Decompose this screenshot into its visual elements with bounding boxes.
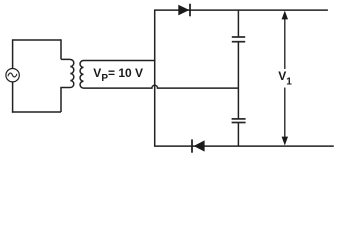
diode D2 bottom rail xyxy=(192,139,205,152)
capacitor C1 plates xyxy=(232,37,245,42)
diode D1 top rail xyxy=(178,4,190,17)
wire left bus vertical xyxy=(154,10,156,146)
wire secondary top xyxy=(84,60,156,62)
wire primary loop bottom xyxy=(12,111,61,113)
transformer secondary coil xyxy=(80,61,83,89)
svg-text:VP= 10 V: VP= 10 V xyxy=(93,66,143,84)
V1 measurement arrow upper xyxy=(282,11,288,69)
AC source V_S xyxy=(6,69,19,82)
V1 measurement arrow lower xyxy=(282,88,288,146)
wire secondary bottom with hop over bus xyxy=(84,85,239,88)
wire capacitor branch middle xyxy=(237,42,239,119)
wire primary loop left upper xyxy=(12,39,14,68)
wire bottom rail xyxy=(154,145,334,147)
wire primary loop left lower xyxy=(12,82,14,113)
transformer primary coil xyxy=(61,59,74,112)
capacitor C2 plates xyxy=(232,119,246,123)
svg-text:V1: V1 xyxy=(278,69,292,87)
wire top rail xyxy=(154,9,328,11)
wire capacitor branch upper xyxy=(237,10,239,37)
wire capacitor branch lower xyxy=(237,123,239,147)
wire primary loop top xyxy=(13,39,61,41)
wire primary loop right xyxy=(60,39,62,59)
